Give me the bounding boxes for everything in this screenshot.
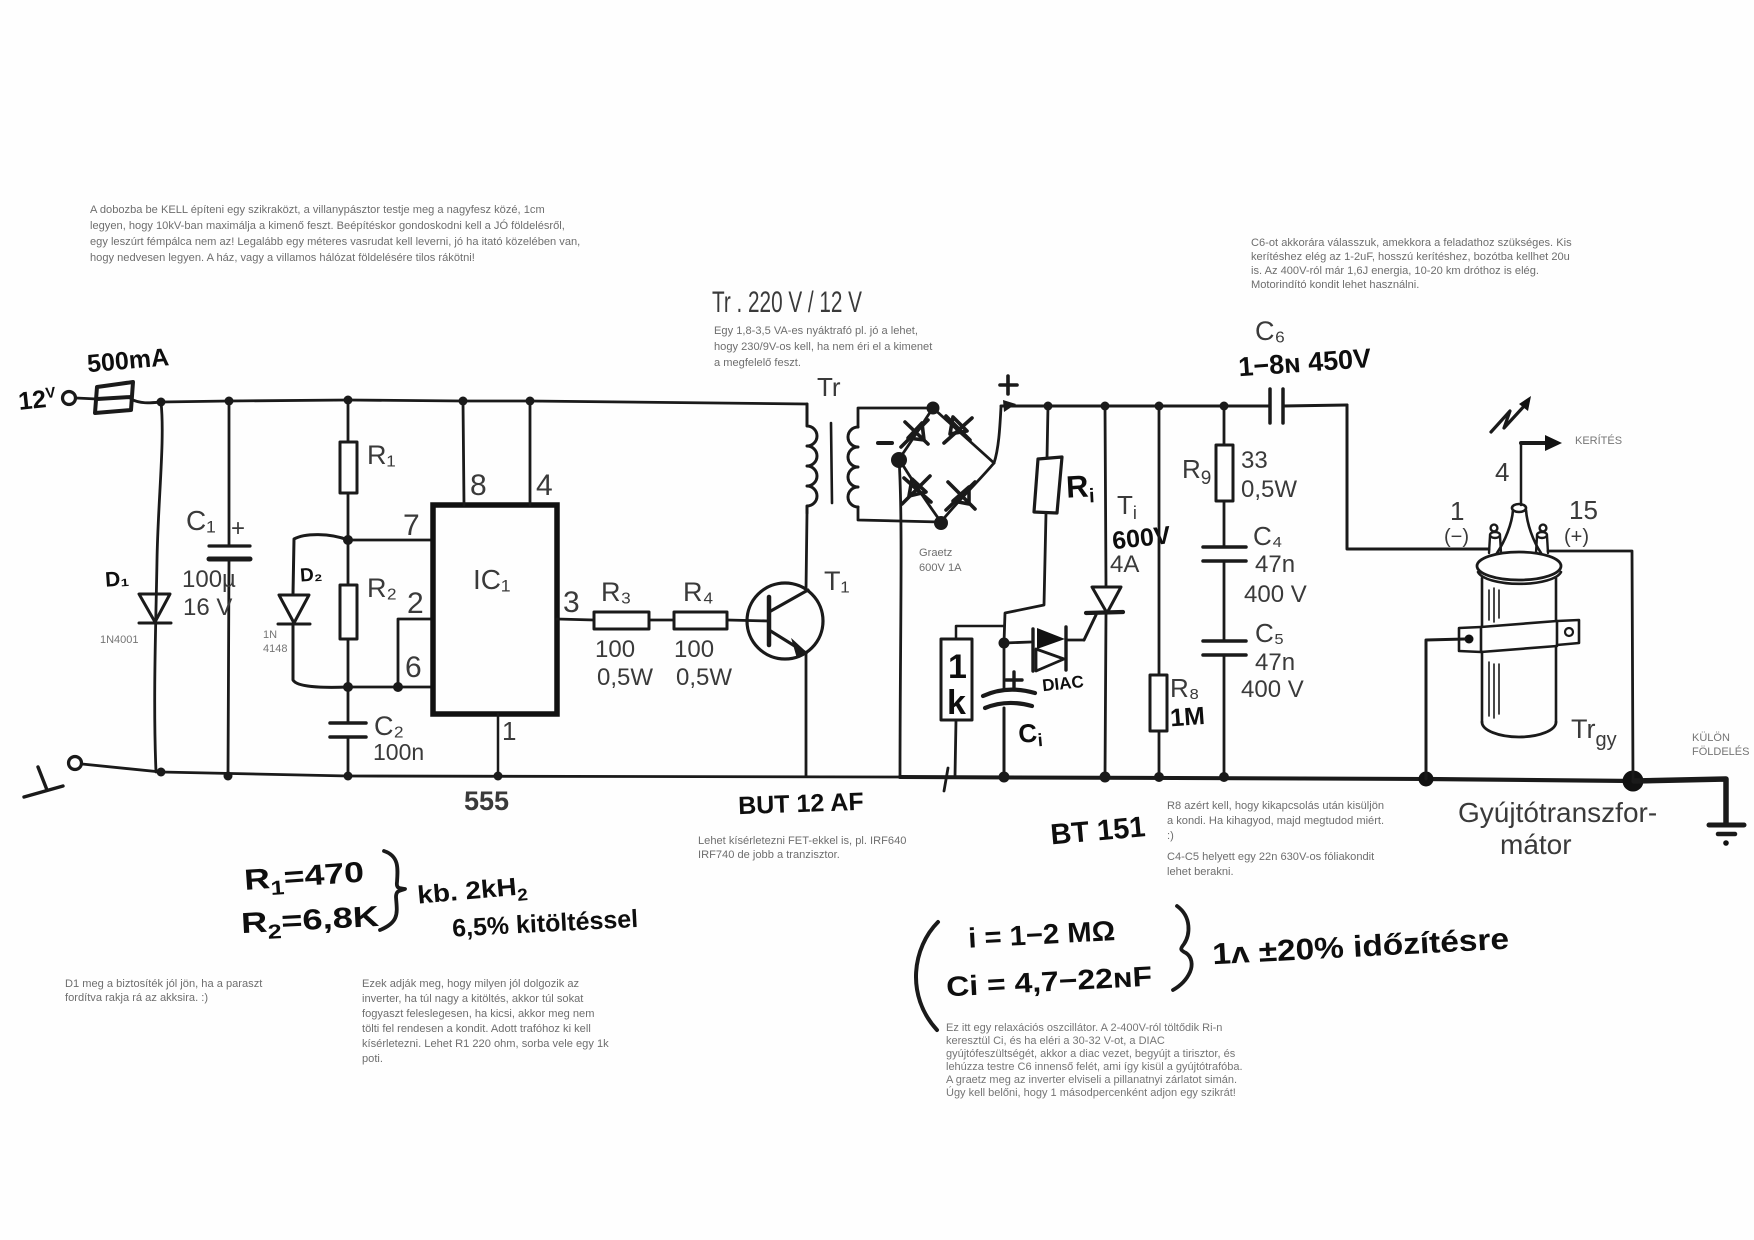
svg-text:a kondi. Ha kihagyod, majd meg: a kondi. Ha kihagyod, majd megtudod miér… <box>1167 815 1384 827</box>
svg-text:555: 555 <box>464 786 509 816</box>
brace left formulas <box>380 851 405 930</box>
node junction pin2/6 <box>393 682 403 692</box>
transistor T1 BUT12AF <box>747 583 823 659</box>
wire 1k top <box>956 626 1004 639</box>
svg-text:Ez itt egy relaxációs oszcillá: Ez itt egy relaxációs oszcillátor. A 2-4… <box>946 1022 1222 1034</box>
node junction R2/C2 <box>343 682 353 692</box>
ground chassis mark handwritten <box>24 767 63 797</box>
svg-text:R₃: R₃ <box>601 577 632 607</box>
wire pin 8 <box>463 401 464 505</box>
svg-text:1: 1 <box>502 716 516 746</box>
paren left big <box>916 922 938 1030</box>
diac symbol <box>1004 642 1031 643</box>
svg-text:1: 1 <box>948 648 967 686</box>
transformer core <box>831 423 832 503</box>
svg-text:fogyaszt feleslegesen, ha kics: fogyaszt feleslegesen, ha kicsi, akkor m… <box>362 1008 594 1020</box>
svg-text:1N: 1N <box>263 629 277 641</box>
svg-text:8: 8 <box>470 469 487 502</box>
svg-text:4A: 4A <box>1110 551 1139 578</box>
resistor R4 100 0.5W <box>674 612 727 629</box>
svg-text:legyen, hogy 10kV-ban maximálj: legyen, hogy 10kV-ban maximálja a kimenő… <box>90 219 565 232</box>
wire fuse to rail <box>131 399 161 403</box>
svg-text:D₂: D₂ <box>299 564 323 586</box>
wire bridge plus output <box>994 407 1001 463</box>
svg-text:poti.: poti. <box>362 1053 383 1065</box>
svg-text:A graetz meg az inverter elvis: A graetz meg az inverter elviseli a pill… <box>946 1074 1237 1086</box>
svg-text:Úgy kell belőni, hogy 1 másodp: Úgy kell belőni, hogy 1 másodpercenként … <box>946 1086 1236 1099</box>
wire bridge minus down <box>899 459 901 777</box>
svg-text:R₂: R₂ <box>367 573 397 603</box>
svg-text::): :) <box>1167 830 1174 842</box>
svg-text:BUT 12 AF: BUT 12 AF <box>738 788 864 820</box>
resistor R3 100 0.5W <box>594 612 649 629</box>
svg-text:R₁: R₁ <box>367 440 396 470</box>
node pin7 junction <box>343 535 353 545</box>
svg-text:(−): (−) <box>1444 526 1469 548</box>
wire C6 to coil <box>1347 405 1489 549</box>
wire R1 to node7 <box>347 493 350 540</box>
wire D2 bottom <box>293 624 348 687</box>
diode D2 1N4148 <box>278 595 310 624</box>
svg-text:lehúzza testre C6 innenső felé: lehúzza testre C6 innenső felét, ami így… <box>946 1061 1243 1073</box>
svg-text:IRF740 de jobb a tranzisztor.: IRF740 de jobb a tranzisztor. <box>698 849 840 861</box>
wire pin 1 <box>497 714 500 776</box>
svg-text:16 V: 16 V <box>183 594 232 621</box>
svg-text:0,5W: 0,5W <box>676 664 732 691</box>
thyristor Ti <box>1105 406 1106 586</box>
svg-text:R₈: R₈ <box>1170 673 1200 703</box>
wire 1k bottom <box>955 720 956 776</box>
wire terminal 15 to ground <box>1548 551 1633 781</box>
wire right supply rail <box>1001 405 1269 408</box>
svg-text:600V 1A: 600V 1A <box>919 562 962 574</box>
resistor Ri branch <box>1047 406 1048 458</box>
svg-text:1N4001: 1N4001 <box>100 634 139 646</box>
capacitor Ci <box>1003 643 1006 689</box>
svg-text:C₄: C₄ <box>1253 521 1282 551</box>
wire pin 7 <box>348 539 433 542</box>
lightning arrow <box>1491 404 1526 432</box>
resistor R2 <box>347 540 350 585</box>
svg-text:0,5W: 0,5W <box>1241 476 1297 503</box>
svg-text:a megfelelő feszt.: a megfelelő feszt. <box>714 357 801 369</box>
svg-text:1M: 1M <box>1169 702 1206 732</box>
wire clamp to ground <box>1426 639 1465 779</box>
wire top supply rail <box>161 400 807 404</box>
svg-text:100: 100 <box>674 636 714 663</box>
svg-text:C6-ot akkorára válasszuk, amek: C6-ot akkorára válasszuk, amekkora a fel… <box>1251 237 1572 249</box>
wire R1 branch <box>347 400 350 442</box>
svg-text:kísérletezni. Lehet R1 220 ohm: kísérletezni. Lehet R1 220 ohm, sorba ve… <box>362 1038 609 1050</box>
svg-text:100: 100 <box>595 636 635 663</box>
svg-text:is. Az 400V-ról már 1,6J energ: is. Az 400V-ról már 1,6J energia, 10-20 … <box>1251 265 1539 277</box>
svg-text:7: 7 <box>403 509 420 542</box>
svg-text:C₅: C₅ <box>1255 618 1284 648</box>
resistor R1 <box>340 442 357 493</box>
bridge rectifier Graetz 600V 1A <box>899 408 994 522</box>
capacitor C1 100u 16V <box>209 546 250 559</box>
node ground terminal <box>69 757 82 770</box>
svg-text:4: 4 <box>1495 457 1509 487</box>
wire emitter down <box>805 653 808 776</box>
svg-text:Motorindító kondit lehet haszn: Motorindító kondit lehet használni. <box>1251 279 1419 291</box>
svg-text:47n: 47n <box>1255 551 1295 578</box>
wire secondary top to bridge <box>858 408 932 427</box>
wire R4 to base <box>727 620 769 621</box>
label plus <box>1000 376 1017 394</box>
capacitor C4 47n 400V <box>1223 501 1226 546</box>
svg-text:D₁: D₁ <box>104 567 129 592</box>
svg-text:A dobozba be KELL építeni egy: A dobozba be KELL építeni egy szikraközt… <box>90 204 545 216</box>
transformer Tr primary coil <box>807 404 817 513</box>
svg-text:keresztül Ci, és ha eléri a 30: keresztül Ci, és ha eléri a 30-32 V-ot, … <box>946 1035 1165 1047</box>
svg-text:+: + <box>231 515 245 542</box>
IC IC1 555 timer <box>433 505 557 714</box>
svg-text:4148: 4148 <box>263 643 287 655</box>
svg-text:FÖLDELÉS: FÖLDELÉS <box>1692 745 1749 758</box>
wire pin 4 <box>529 401 532 505</box>
node dots right rail <box>1044 402 1053 411</box>
svg-text:15: 15 <box>1569 495 1598 525</box>
svg-text:Tr . 220 V / 12 V: Tr . 220 V / 12 V <box>712 286 862 319</box>
capacitor C5 47n 400V <box>1223 561 1226 640</box>
svg-text:47n: 47n <box>1255 649 1295 676</box>
svg-text:C4-C5 helyett egy 22n 630V-os: C4-C5 helyett egy 22n 630V-os fóliakondi… <box>1167 851 1374 863</box>
svg-text:R₄: R₄ <box>683 577 714 607</box>
svg-text:Ezek adják meg, hogy milyen jó: Ezek adják meg, hogy milyen jól dolgozik… <box>362 978 579 990</box>
wire pin 3 <box>557 619 594 620</box>
earth ground far right <box>1634 779 1726 823</box>
wire secondary bottom to bridge <box>858 507 940 522</box>
svg-text:R8 azért kell, hogy kikapcsolá: R8 azért kell, hogy kikapcsolás után kis… <box>1167 800 1384 812</box>
node oscillator junction <box>999 638 1010 649</box>
capacitor C2 100n <box>330 723 366 737</box>
svg-text:D1 meg a biztosíték jól jön, h: D1 meg a biztosíték jól jön, ha a parasz… <box>65 978 262 990</box>
node 12V input terminal <box>63 392 76 405</box>
wire output 4 with fence arrow <box>1520 443 1523 505</box>
wire bottom ground rail <box>82 764 900 777</box>
fuse F1 500mA <box>95 382 133 413</box>
svg-text:400 V: 400 V <box>1241 676 1304 703</box>
svg-text:6: 6 <box>405 651 422 684</box>
potentiometer 1k box <box>941 639 972 720</box>
svg-text:100µ: 100µ <box>182 566 236 593</box>
node dots bottom rail <box>157 768 166 777</box>
wire D2 top curve <box>293 535 348 594</box>
svg-text:mátor: mátor <box>1500 829 1572 860</box>
ignition coil cap <box>1477 552 1561 580</box>
label minus <box>878 441 892 445</box>
svg-text:inverter, ha túl nagy a kitölt: inverter, ha túl nagy a kitöltés, akkor … <box>362 993 583 1005</box>
svg-text:lehet berakni.: lehet berakni. <box>1167 866 1234 878</box>
wire R3-R4 <box>649 619 674 622</box>
bridge diode 4 <box>946 482 975 510</box>
svg-text:Gyújtótranszfor-: Gyújtótranszfor- <box>1458 797 1657 828</box>
ignition coil terminal bolt left <box>1489 525 1501 553</box>
svg-text:Egy 1,8-3,5 VA-es nyáktrafó pl: Egy 1,8-3,5 VA-es nyáktrafó pl. jó a leh… <box>714 325 918 337</box>
svg-text:k: k <box>947 684 966 722</box>
svg-text:2: 2 <box>407 587 424 620</box>
transformer Tr secondary coil <box>848 427 858 507</box>
svg-text:egy leszúrt fémpálca nem az! L: egy leszúrt fémpálca nem az! Legalább eg… <box>90 236 580 248</box>
wire collector up <box>806 513 807 590</box>
label plus Ci <box>1006 672 1022 688</box>
svg-text:33: 33 <box>1241 447 1268 474</box>
svg-text:fordítva rakja rá az akksira.: fordítva rakja rá az akksira. :) <box>65 992 208 1004</box>
svg-text:0,5W: 0,5W <box>597 664 653 691</box>
wire input to fuse <box>76 398 97 399</box>
bridge diode 2 <box>944 416 972 443</box>
node big dot separate ground <box>1623 771 1644 792</box>
svg-text:IC₁: IC₁ <box>473 564 510 595</box>
ignition coil shading <box>1489 588 1499 718</box>
svg-text:tölti fel rendesen a kondit. A: tölti fel rendesen a kondit. Adott trafó… <box>362 1023 591 1035</box>
ignition coil clamp band <box>1459 620 1579 652</box>
bridge diode 3 <box>902 476 931 504</box>
svg-text:Lehet kísérletezni FET-ekkel i: Lehet kísérletezni FET-ekkel is, pl. IRF… <box>698 835 906 847</box>
svg-text:hogy 230/9V-os kell, ha nem ér: hogy 230/9V-os kell, ha nem éri el a kim… <box>714 341 932 353</box>
wire tick mark near 1k <box>944 768 948 791</box>
svg-text:Graetz: Graetz <box>919 547 952 559</box>
svg-text:C₁: C₁ <box>186 505 216 536</box>
wire C2 top <box>347 687 350 722</box>
svg-text:Tr: Tr <box>817 372 841 402</box>
wire D1 branch vertical (wavy) <box>155 402 163 772</box>
capacitor C6 <box>1270 389 1283 423</box>
resistor R9 33 0.5W <box>1223 406 1226 445</box>
node big dot clamp ground <box>1419 772 1434 787</box>
svg-text:400 V: 400 V <box>1244 581 1307 608</box>
svg-text:(+): (+) <box>1564 526 1589 548</box>
svg-text:C₂: C₂ <box>374 711 404 741</box>
bridge diode 1 <box>901 420 928 447</box>
wire pin 2 step <box>398 619 433 687</box>
svg-text:KÜLÖN: KÜLÖN <box>1692 732 1730 744</box>
brace right big <box>1173 906 1192 990</box>
wire C1 branch top <box>228 401 231 545</box>
svg-text:3: 3 <box>563 586 580 619</box>
svg-text:gyújtófeszültségét, akkor a di: gyújtófeszültségét, akkor a diac vezet, … <box>946 1048 1236 1060</box>
resistor R8 1M <box>1158 406 1161 675</box>
svg-text:1: 1 <box>1450 496 1464 526</box>
svg-text:kerítéshez elég az 1-2uF, hoss: kerítéshez elég az 1-2uF, hosszú kerítés… <box>1251 251 1570 263</box>
wire node6 horizontal <box>348 686 433 689</box>
svg-text:100n: 100n <box>373 739 424 765</box>
svg-text:T₁: T₁ <box>824 566 850 596</box>
svg-text:4: 4 <box>536 469 553 502</box>
ignition coil Trgy: HV tower <box>1497 510 1541 553</box>
diode D1 1N4001 <box>139 594 171 623</box>
svg-text:C₆: C₆ <box>1255 316 1285 346</box>
node bridge corners <box>927 402 940 415</box>
wire C1 bottom <box>228 559 229 776</box>
node junction dots on top rail <box>157 398 166 407</box>
ignition coil terminal bolt right <box>1536 525 1548 553</box>
svg-text:KERÍTÉS: KERÍTÉS <box>1575 434 1622 447</box>
svg-text:hogy nedvesen legyen. A ház, v: hogy nedvesen legyen. A ház, vagy a vill… <box>90 252 475 264</box>
ignition coil body cylinder <box>1482 578 1556 722</box>
